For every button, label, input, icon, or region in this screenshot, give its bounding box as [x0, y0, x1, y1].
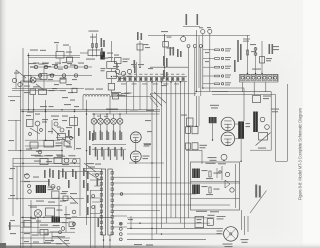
wire v38 down — [37, 217, 39, 234]
junction p7f — [73, 223, 76, 226]
wire p6 v136 — [136, 62, 138, 77]
junction q11 — [28, 185, 31, 188]
label ch2b — [48, 79, 53, 80]
wire top bus y55 — [27, 55, 80, 57]
label if top2 — [104, 115, 108, 118]
wire right frame mid — [275, 95, 277, 162]
label tm8 — [167, 37, 172, 38]
wire y181L — [21, 180, 51, 182]
label P1 pin11 — [171, 73, 174, 76]
wire P2 in4 — [90, 197, 101, 199]
wire tl h57 — [29, 57, 81, 59]
label K2 — [181, 115, 187, 116]
label r5 — [24, 241, 29, 242]
label p7g — [66, 218, 71, 219]
wire TS1 drop5 — [265, 82, 267, 92]
wire y150 right — [250, 149, 271, 151]
terminal ch1-5 — [74, 65, 77, 68]
switch S1 body — [107, 62, 117, 69]
label lc2 — [39, 64, 45, 65]
terminal E3 — [199, 45, 202, 48]
label right3 — [258, 148, 266, 149]
label P1 pin2 — [123, 73, 126, 76]
label amp b — [211, 107, 218, 108]
label ch1a — [33, 63, 39, 64]
connector strip P1 — [117, 77, 187, 82]
wire strip drop c — [126, 82, 128, 114]
terminal ch2-4 — [74, 74, 77, 77]
wire left frame bus A — [20, 81, 22, 248]
terminal ch1-6 — [84, 65, 87, 68]
wire diag bl — [57, 236, 69, 247]
label T5 — [202, 170, 208, 171]
label IF row2 4 — [114, 147, 116, 157]
wire J3 stem — [182, 35, 184, 36]
wire S1 out — [111, 90, 113, 96]
label C1 — [167, 48, 173, 49]
inductor L2 choke — [253, 112, 258, 133]
label s5c — [144, 144, 151, 145]
label l3 — [57, 156, 65, 157]
label p6d — [70, 65, 76, 66]
label Q9b — [144, 145, 150, 146]
resistor R21 — [247, 50, 249, 55]
label s5h — [54, 42, 59, 43]
label r9 — [64, 240, 69, 241]
label p3k — [36, 151, 41, 152]
wire P3 out7 — [114, 226, 128, 228]
wire row2 — [203, 58, 214, 60]
label lm4 — [66, 136, 72, 137]
wire drop 247 — [247, 35, 249, 36]
transistor Q17 — [73, 159, 77, 163]
label col XTAL a — [237, 40, 239, 62]
wire stub left1 — [8, 120, 21, 122]
label P1 pin1 — [118, 73, 121, 76]
capacitor C65 — [64, 141, 70, 146]
label P1 pin10 — [166, 73, 169, 76]
label L3c — [108, 57, 113, 58]
label q19 — [60, 201, 66, 202]
wire bus y150 left — [8, 150, 62, 152]
wire strip drop b — [139, 82, 141, 110]
wire diag right — [256, 133, 271, 146]
label ch2d — [72, 79, 77, 80]
label T2b — [246, 126, 251, 127]
label rr1 — [205, 52, 209, 53]
wire T1 drop — [212, 123, 214, 140]
label strip bot — [98, 218, 100, 227]
wire v31 down — [30, 200, 32, 248]
diode D1 — [225, 172, 229, 176]
wire E2 down — [194, 48, 196, 97]
wire S1 low — [111, 79, 113, 84]
transformer T5 primary — [192, 169, 200, 179]
wire h171 — [60, 171, 101, 173]
capacitor C31 — [192, 143, 198, 150]
transistor Q14 — [260, 117, 265, 122]
label q13 — [24, 174, 29, 175]
label R51 — [214, 189, 220, 190]
wire p6 stub2 — [8, 96, 21, 98]
label if s3 — [89, 146, 91, 155]
label C12 — [123, 59, 130, 60]
wire bus y114 seg — [92, 113, 126, 115]
label T3 — [48, 187, 55, 188]
label fr1 — [250, 44, 256, 45]
wire diag br — [250, 191, 267, 214]
label top mid — [52, 88, 57, 89]
wire lc bus1 — [12, 88, 84, 90]
wire P3 out5 — [114, 210, 161, 212]
resistor R13 — [215, 66, 220, 68]
label r7 — [44, 242, 51, 243]
wire bottom bus 2 — [127, 222, 210, 224]
wire Q5 down — [100, 124, 102, 131]
label lc7 — [14, 73, 19, 74]
label tm1 — [90, 37, 96, 38]
wire Q10 down — [135, 162, 137, 163]
label J3 — [170, 47, 172, 56]
label C20 — [121, 93, 129, 94]
label IF row2b 1 — [97, 150, 98, 160]
label p6e — [58, 69, 63, 70]
wire top bus y35 — [148, 34, 250, 36]
wire P2 in5 — [90, 190, 101, 192]
label pc2 — [166, 58, 168, 67]
wire U1 right v — [235, 164, 237, 208]
label lc1 — [28, 63, 36, 64]
wire p3 v37 — [37, 126, 39, 140]
label tm10 — [180, 51, 182, 57]
label s5f — [64, 104, 71, 105]
inductor L1 winding row — [83, 94, 110, 96]
label IF row2b 3 — [110, 150, 111, 160]
label p6h — [10, 100, 15, 101]
label st2 — [83, 180, 85, 188]
wire output loop top — [196, 91, 228, 93]
label q3 — [62, 164, 69, 165]
wire v95 lower — [94, 205, 96, 248]
wire p6 v16b — [15, 120, 17, 151]
label q15 — [62, 191, 68, 192]
terminal ch2-1 — [38, 74, 41, 77]
label q8 — [75, 171, 77, 179]
inductor L3 slug — [100, 52, 105, 60]
label P1 under4 — [163, 83, 168, 86]
label osc c — [144, 44, 149, 45]
label row1b — [225, 50, 230, 51]
label r10 — [10, 220, 15, 221]
wire bundle 8 — [183, 82, 185, 228]
label P1 pin5 — [139, 73, 142, 76]
label s5e — [70, 100, 75, 101]
label p3g — [66, 147, 72, 148]
wire P2 in3 — [94, 185, 101, 187]
label C63 — [49, 74, 55, 75]
wire left frame bus B — [22, 48, 24, 248]
terminal ch2-2 — [50, 74, 53, 77]
label vert l3 — [62, 169, 64, 178]
capacitor C53 — [40, 230, 48, 236]
wire ant down — [164, 34, 166, 63]
label p7b — [9, 178, 13, 179]
wire lm h137 — [56, 137, 74, 139]
label blc2 — [9, 222, 11, 230]
label bl2 — [53, 225, 60, 226]
amplifier block U1 outline — [191, 162, 240, 210]
capacitor C51 — [54, 158, 62, 164]
diode D2 — [230, 188, 234, 192]
label U1 top — [206, 163, 216, 164]
switch S2 box — [207, 219, 213, 226]
label right col b — [272, 44, 274, 54]
label u1 in2 — [206, 194, 213, 195]
resistor R6 — [96, 44, 98, 48]
label q9 — [48, 179, 50, 186]
label tl2 — [40, 50, 46, 51]
wire U1 mid — [191, 181, 240, 183]
label B1 left2 — [217, 233, 222, 234]
label L3a — [107, 53, 113, 54]
wire V line2 — [261, 41, 263, 74]
label S2 — [208, 215, 215, 216]
wire right tail3 — [247, 216, 249, 232]
potentiometer VR1 — [46, 208, 55, 216]
label br1 — [241, 239, 249, 240]
label J2 — [207, 27, 211, 28]
wire y232 — [21, 231, 76, 233]
label IF row2b 4 — [116, 150, 117, 160]
wire bottom bus 4 — [127, 233, 223, 235]
label lm1 — [27, 112, 33, 113]
label sp4 — [87, 207, 89, 215]
label row154c — [56, 155, 63, 156]
wire y158 — [13, 157, 80, 159]
label P2 side — [97, 178, 99, 186]
wire jack bus b — [195, 30, 197, 92]
resistor R51 — [209, 187, 211, 193]
terminal t3 — [25, 174, 30, 179]
label p6i — [9, 140, 14, 141]
wire bundle 3 — [161, 82, 163, 228]
label C20b — [121, 95, 127, 96]
label sp3 — [87, 195, 89, 203]
label q2 — [46, 161, 52, 162]
wire bottom bus 5 — [127, 239, 206, 241]
label r2 — [32, 235, 39, 236]
label Q4 value2 — [95, 132, 96, 140]
label U1 bot — [196, 211, 207, 212]
wire p3 v62 — [61, 140, 63, 163]
label ch1b — [43, 63, 48, 64]
wire P3 out1 — [114, 176, 161, 178]
label p6j — [62, 120, 67, 121]
label P1 pin7 — [150, 73, 153, 76]
transistor Q16 — [64, 158, 69, 163]
label C12b — [123, 61, 128, 62]
label p7h — [24, 92, 30, 93]
wire bundle 5 — [170, 82, 172, 218]
wire top jack link — [183, 26, 200, 28]
label vert l2 — [52, 170, 54, 178]
label lm3 — [48, 131, 53, 132]
label q20 — [70, 203, 76, 204]
transistor Q2 — [121, 71, 125, 75]
wire tl chain2 — [30, 75, 92, 77]
transistor Q1 — [115, 69, 119, 73]
label p7a — [10, 168, 15, 169]
capacitor C6 — [30, 142, 38, 148]
wire diag bun2 — [150, 98, 158, 108]
label right col a — [269, 44, 271, 54]
transistor Q20 — [12, 78, 16, 82]
label p7e — [70, 228, 75, 229]
motor B1 — [224, 227, 238, 241]
wire lc v16 — [15, 70, 17, 89]
label right1 — [271, 109, 279, 110]
label r4 — [52, 236, 58, 237]
relay K2 — [187, 118, 194, 126]
label B1 bot2 — [225, 246, 233, 247]
capacitor C33 — [186, 143, 191, 149]
wire bl v44 — [43, 230, 45, 244]
label C30 — [200, 145, 208, 146]
label p6c — [62, 62, 67, 63]
label blc1 — [10, 233, 16, 234]
transistor Q7 — [111, 118, 117, 124]
junction dots 2 — [45, 73, 263, 241]
junction j1 — [120, 193, 123, 196]
wire bus y67 mid — [150, 66, 188, 68]
wire L1 left — [82, 97, 84, 111]
label fr3 — [273, 49, 279, 50]
label p6a — [42, 63, 49, 64]
capacitor C9 — [260, 57, 265, 64]
label L3b — [114, 55, 119, 56]
wire TS1 feed2 — [212, 94, 276, 96]
transistor Q15 — [265, 125, 270, 130]
terminal fr1 — [254, 48, 257, 51]
label q22 — [64, 214, 70, 215]
label if s6 — [88, 167, 95, 168]
label L1 — [85, 89, 94, 90]
label row154b — [44, 155, 52, 156]
wire bl h227 — [21, 226, 61, 228]
wire V1-T2 — [235, 123, 239, 125]
wire y238 — [21, 237, 71, 239]
label P1 pin13 — [182, 73, 185, 76]
label IF row2 3 — [108, 147, 110, 157]
label lc4 — [44, 66, 51, 67]
terminal t4 — [28, 190, 32, 194]
label p6f — [138, 64, 144, 65]
label y106b — [49, 106, 54, 107]
transistor Q9 — [130, 132, 141, 143]
label Q2 — [120, 78, 125, 79]
label row3a — [225, 66, 231, 67]
resistor R5 — [92, 44, 94, 48]
wire Q9-Q10 — [135, 143, 137, 151]
wire v86 lower — [86, 170, 88, 225]
transistor Q21 — [18, 82, 22, 86]
label C40 — [263, 96, 271, 97]
transistor Q5 — [98, 118, 104, 124]
wire bundle 2 — [156, 82, 158, 234]
wire Q7 down — [113, 124, 115, 131]
junction p3f — [70, 137, 73, 140]
label bl3 — [50, 232, 58, 233]
label p3j — [26, 149, 32, 150]
label bl4 — [45, 240, 54, 241]
label C7b — [56, 145, 62, 146]
label r1 — [24, 233, 30, 234]
connector strip P2 — [100, 169, 106, 235]
wire S1 mid — [111, 69, 113, 72]
wire left bus D — [12, 158, 14, 216]
label term strip b — [259, 186, 261, 198]
wire bundle 9 — [188, 96, 190, 218]
label IF row2 1 — [95, 147, 97, 157]
wire diag1 — [30, 128, 40, 134]
wire V line — [247, 36, 249, 74]
wire bundle 4 — [165, 82, 167, 223]
label p6g — [148, 68, 153, 69]
label p6b — [52, 64, 58, 65]
terminal bl — [61, 227, 65, 231]
wire P3 out3 — [114, 193, 197, 195]
label s5a — [145, 120, 151, 121]
wire q v59 — [58, 196, 60, 216]
junction u1 — [219, 171, 221, 173]
label row4b — [225, 77, 230, 78]
label Q11b — [42, 121, 47, 122]
label tm6 — [134, 66, 136, 73]
label bb2 — [146, 244, 153, 245]
wire bus y217 left — [21, 216, 113, 218]
label p3d — [57, 127, 61, 128]
label s5i — [63, 45, 69, 46]
label xtal r — [101, 38, 103, 47]
label R50 — [214, 173, 220, 174]
connector strip P3 — [108, 169, 114, 235]
wire S1 up — [111, 41, 113, 62]
label Q8 value — [119, 131, 121, 141]
wire right tail2 — [244, 216, 246, 235]
wire osc down — [139, 41, 141, 67]
terminal strip bottom 1 — [119, 222, 122, 225]
wire bundle 6 — [175, 82, 177, 218]
label tm3 — [103, 58, 108, 59]
wire Q8 up — [119, 114, 121, 118]
label T3b — [48, 189, 54, 190]
wire strip drop d — [146, 82, 148, 110]
label if s1 — [89, 131, 91, 140]
label row5b — [225, 84, 230, 85]
label ant — [161, 31, 168, 32]
wire v80 down — [79, 158, 81, 216]
wire y114 ext — [126, 113, 160, 115]
label xtal r2 — [103, 40, 105, 47]
label mid2 — [62, 116, 68, 117]
label p7d — [62, 222, 68, 223]
wire diag bun1 — [150, 94, 162, 106]
terminal spk — [221, 154, 227, 160]
label right2 — [272, 111, 278, 112]
label spk2 — [210, 160, 217, 161]
wire p3 diag — [62, 138, 70, 144]
wire diag bun3 — [154, 92, 166, 103]
